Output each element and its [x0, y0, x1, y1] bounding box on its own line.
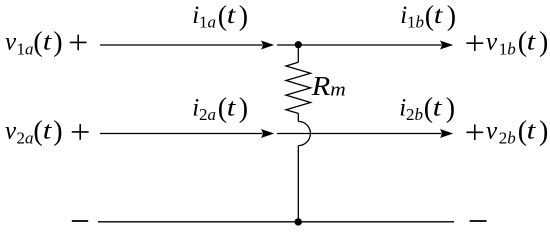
svg-text:i1a(t): i1a(t)	[192, 1, 248, 32]
minus sign left	[72, 220, 88, 222]
svg-text:Rm: Rm	[311, 71, 346, 101]
plus sign v1a	[70, 35, 87, 51]
crossover hop	[298, 121, 310, 145]
resistor Rm	[286, 62, 311, 113]
wire node to resistor	[297, 45, 299, 62]
wire arrow to port1b	[277, 44, 441, 46]
svg-text:v2a(t): v2a(t)	[5, 116, 63, 148]
svg-text:i2b(t): i2b(t)	[399, 93, 455, 124]
wire hop to bottom node	[297, 146, 299, 222]
junction node top	[295, 41, 302, 48]
wire common bottom	[98, 221, 454, 223]
wire port2a to arrow	[100, 133, 262, 135]
svg-text:v2b(t): v2b(t)	[486, 116, 548, 148]
svg-text:i2a(t): i2a(t)	[192, 93, 248, 124]
arrow i2b	[440, 129, 453, 138]
wire resistor to hop	[297, 113, 299, 121]
wire arrow to port2b	[277, 133, 441, 135]
junction node bottom	[295, 218, 302, 225]
svg-text:v1b(t): v1b(t)	[486, 27, 548, 59]
svg-text:i1b(t): i1b(t)	[400, 1, 456, 32]
arrow i2a	[261, 129, 274, 138]
svg-text:v1a(t): v1a(t)	[5, 27, 63, 59]
plus sign v1b	[466, 35, 483, 51]
arrow i1a	[261, 41, 274, 50]
plus sign v2b	[466, 125, 483, 141]
minus sign right	[470, 220, 487, 222]
plus sign v2a	[72, 124, 89, 140]
arrow i1b	[440, 41, 453, 50]
wire port1a to arrow	[100, 44, 262, 46]
